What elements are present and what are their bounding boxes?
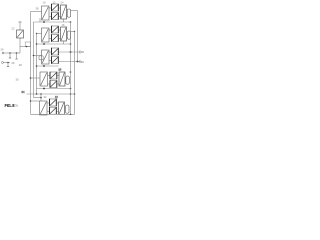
row1 driver box <box>42 6 50 20</box>
row4 bottom wire <box>37 88 72 90</box>
row5 piezo element <box>59 102 65 114</box>
row3 input wire <box>33 55 44 60</box>
staircase V1 <box>31 100 40 102</box>
bus V2 <box>33 22 35 98</box>
row5 switch S5b <box>47 103 59 114</box>
svg-text:14: 14 <box>61 1 64 5</box>
row1 chamber capsule <box>67 9 71 17</box>
row1 piezo element <box>61 5 67 19</box>
row4 switch S4a <box>48 72 57 79</box>
row2 bottom wire <box>36 41 72 45</box>
resistor 22 box with slash <box>17 30 24 38</box>
row2 piezo element <box>61 27 67 41</box>
row1 input wire <box>31 11 42 13</box>
right bus C <box>77 11 79 62</box>
row2 input wire <box>37 33 42 35</box>
row3 driver box <box>42 50 50 64</box>
row1 switch S1b <box>49 8 61 20</box>
svg-text:32: 32 <box>44 95 47 99</box>
row4 switch S4b <box>48 76 60 88</box>
svg-text:12: 12 <box>55 96 58 99</box>
row5 switch S5a <box>47 99 56 106</box>
svg-text:10: 10 <box>43 1 46 5</box>
row2 driver box <box>42 28 50 42</box>
wire to bus with small box <box>20 42 31 47</box>
row1 switch S1a <box>49 4 58 11</box>
svg-text:FIG. 8: FIG. 8 <box>5 103 16 108</box>
row5 driver box <box>40 101 48 115</box>
staircase V2 <box>34 97 42 99</box>
svg-text:24: 24 <box>1 48 4 52</box>
svg-text:36: 36 <box>15 104 18 108</box>
svg-text:26: 26 <box>12 61 15 65</box>
row3 switch S3b <box>49 56 58 63</box>
svg-text:38: 38 <box>36 7 39 11</box>
row4 piezo element <box>59 72 65 86</box>
bus V1 <box>30 12 32 115</box>
svg-text:20: 20 <box>81 60 84 64</box>
svg-text:22: 22 <box>12 27 15 31</box>
row4 right wire <box>70 71 72 73</box>
row2 chamber capsule <box>67 31 71 39</box>
svg-text:28: 28 <box>19 63 22 67</box>
bus V3 <box>36 34 38 95</box>
row1 bottom wire <box>34 18 72 23</box>
row4 input wire <box>30 77 40 79</box>
right bus B <box>74 32 76 115</box>
row3 bottom wire <box>36 65 59 67</box>
row2 switch S2b <box>49 30 61 42</box>
row3 switch S3a <box>49 48 58 55</box>
row1 top right wire <box>71 10 78 12</box>
stub into row5 <box>40 94 42 101</box>
svg-text:34: 34 <box>22 90 25 94</box>
left input terminal 24 <box>2 52 20 59</box>
row3 tap wire 20 <box>59 60 81 63</box>
row2 right wire <box>71 31 75 33</box>
common wire y94 <box>27 93 76 95</box>
right bus A <box>70 22 72 114</box>
svg-text:18: 18 <box>81 50 84 54</box>
svg-text:30: 30 <box>16 78 19 82</box>
row2 switch S2a <box>49 26 58 33</box>
wire left vertical branch <box>19 22 22 53</box>
bottom bus <box>31 114 75 116</box>
row5 chamber capsule <box>66 105 70 113</box>
left input terminal 26 <box>2 62 10 67</box>
row3 tap wire 18 <box>59 51 81 54</box>
svg-text:16: 16 <box>59 68 62 71</box>
svg-text:16: 16 <box>62 23 65 27</box>
row4 chamber capsule <box>66 76 70 84</box>
row4 driver box <box>40 72 48 86</box>
